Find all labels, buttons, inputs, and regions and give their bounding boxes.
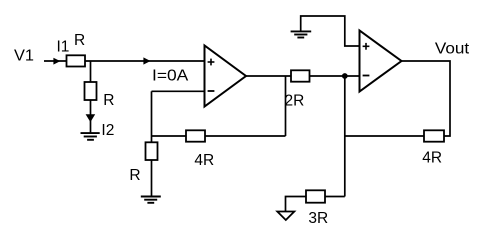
- current arrow I=0A: [143, 57, 150, 64]
- wire R1 to op-amp U1 + input: [85, 60, 205, 62]
- wire U2 output to Vout: [402, 61, 451, 136]
- wire 4R right feedback line: [345, 135, 424, 137]
- label Vout: [435, 41, 470, 58]
- label R (R3): [129, 167, 140, 184]
- svg-text:R: R: [129, 167, 140, 184]
- label R (R1): [74, 32, 85, 49]
- label 2R: [285, 92, 305, 109]
- resistor 4R (right): [424, 130, 444, 141]
- junction node dot: [342, 73, 348, 79]
- wire 3R line right segment: [325, 196, 345, 198]
- svg-text:I2: I2: [101, 122, 114, 139]
- ground (earth) below R2: [81, 133, 100, 140]
- wire tap up to U1 output: [285, 76, 287, 136]
- label I=0A: [152, 68, 189, 85]
- current arrow I1: [53, 58, 60, 65]
- svg-text:3R: 3R: [308, 210, 328, 227]
- op-amp U2: [360, 31, 402, 92]
- wire U1 output: [246, 75, 291, 77]
- node V1 label: [14, 47, 34, 64]
- label 4R (right): [422, 150, 442, 167]
- svg-text:4R: 4R: [194, 152, 214, 169]
- label 3R: [308, 210, 328, 227]
- current arrow I2: [86, 114, 96, 122]
- svg-text:I=0A: I=0A: [152, 68, 189, 85]
- svg-text:2R: 2R: [285, 92, 305, 109]
- resistor R3: [146, 142, 158, 160]
- wire U2 + input to top ground: [301, 16, 360, 46]
- wire 4R to output tap: [205, 135, 286, 137]
- ground (triangle) below 3R: [277, 212, 294, 221]
- op-amp U1: [205, 46, 247, 107]
- svg-text:R: R: [103, 92, 114, 109]
- svg-text:4R: 4R: [422, 150, 442, 167]
- ground (earth) below R3: [141, 197, 161, 203]
- label 4R (left): [194, 152, 214, 169]
- resistor 3R: [306, 190, 325, 202]
- wire feedback line left: [152, 135, 187, 137]
- label I2: [101, 122, 114, 139]
- wire down to feedback node: [151, 91, 153, 142]
- svg-text:I1: I1: [57, 39, 70, 56]
- svg-text:V1: V1: [14, 47, 34, 64]
- label R (R2): [103, 92, 114, 109]
- wire U1 inverting input: [152, 90, 205, 92]
- resistor 4R (left): [186, 130, 205, 141]
- resistor 2R: [291, 70, 310, 81]
- label I1: [57, 39, 70, 56]
- svg-text:R: R: [74, 32, 85, 49]
- wire 2R to U2 inverting input: [310, 75, 360, 77]
- ground (earth) top: [291, 31, 312, 37]
- wire 3R to ground corner: [286, 197, 307, 212]
- resistor R1: [67, 55, 86, 66]
- wire R2 to ground: [90, 100, 92, 133]
- wire V1 input segment: [44, 60, 67, 62]
- svg-text:Vout: Vout: [435, 41, 470, 58]
- resistor R2: [85, 82, 97, 100]
- wire R3 to ground: [151, 160, 153, 197]
- wire junction down from main wire: [90, 61, 92, 82]
- wire node down to 3R line: [344, 76, 346, 197]
